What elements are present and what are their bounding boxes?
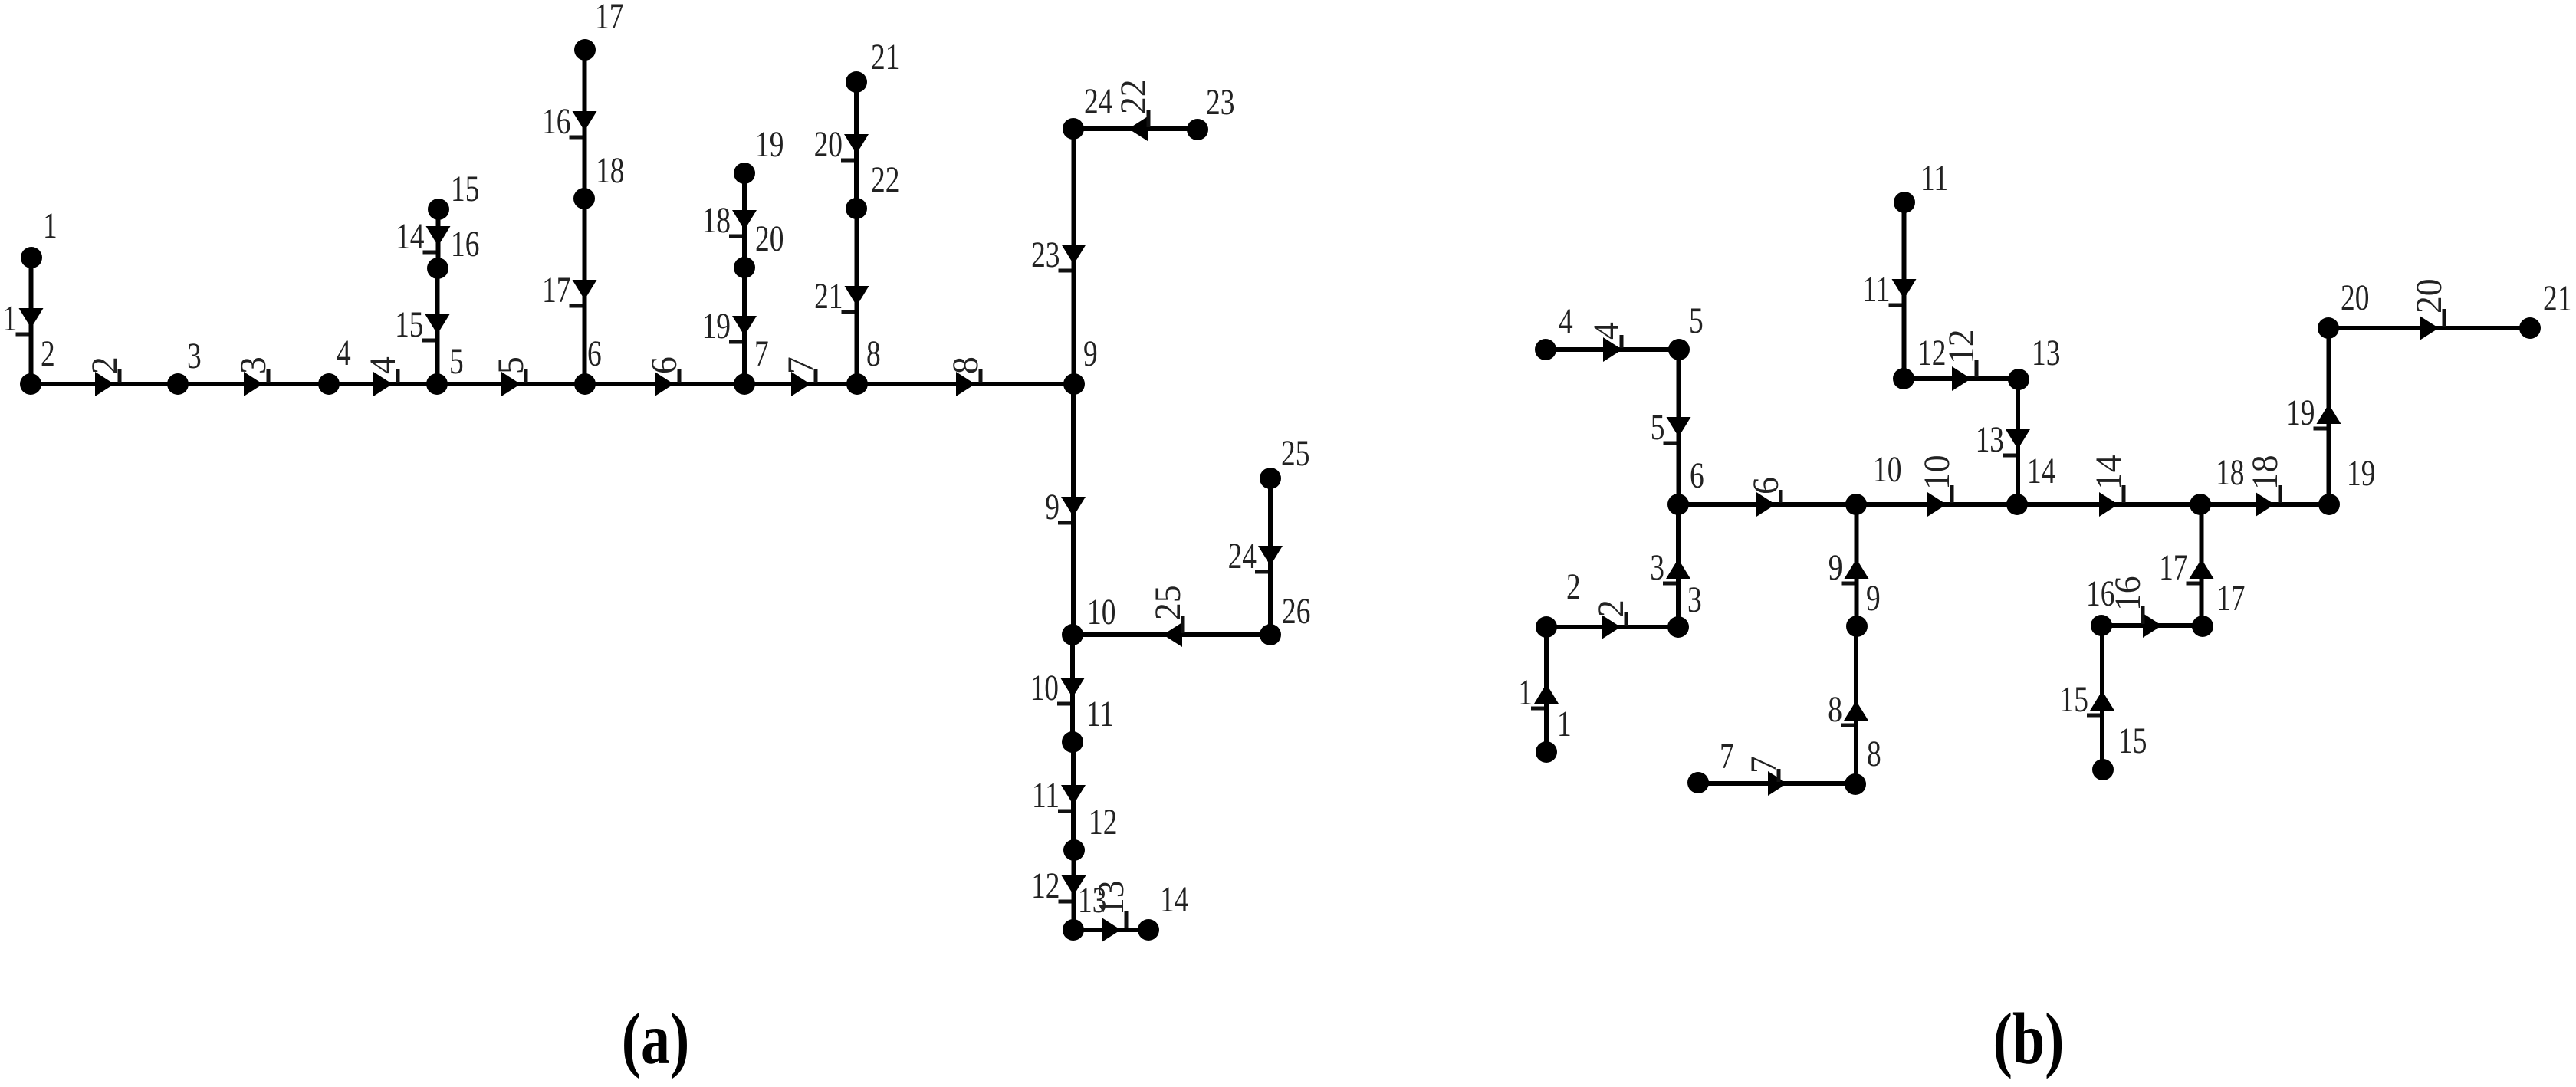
- wire branch 18 (b): node 18 to node 19: [2200, 455, 2329, 517]
- node 17 (b): [2192, 579, 2245, 637]
- node 20 (a): [734, 219, 784, 278]
- wire branch 25 (a): node 10 to node 26: [1073, 585, 1270, 647]
- svg-text:8: 8: [1828, 690, 1842, 730]
- svg-text:5: 5: [1651, 408, 1665, 448]
- node 13 (b): [2008, 333, 2060, 390]
- svg-text:18: 18: [596, 151, 624, 191]
- wire branch 6 (b): node 6 to node 10: [1678, 477, 1856, 517]
- wire branch 10 (b): node 10 to node 14: [1856, 455, 2017, 517]
- node 17 (a): [574, 0, 623, 61]
- svg-text:12: 12: [1917, 333, 1946, 373]
- node 3 (a): [167, 337, 202, 395]
- node 1 (a): [21, 206, 58, 268]
- svg-text:19: 19: [2347, 454, 2375, 494]
- svg-text:20: 20: [2409, 278, 2449, 314]
- svg-text:(b): (b): [1993, 998, 2065, 1079]
- svg-text:1: 1: [3, 299, 18, 339]
- node 12 (b): [1893, 333, 1946, 389]
- svg-text:5: 5: [449, 342, 464, 382]
- node 24 (a): [1063, 82, 1112, 140]
- node 9 (b): [1846, 579, 1881, 637]
- wire branch 17 (a): node 18 to node 6: [542, 199, 596, 384]
- svg-text:20: 20: [814, 125, 843, 165]
- svg-text:19: 19: [755, 125, 784, 165]
- node 14 (a): [1138, 880, 1188, 941]
- wire branch 12 (a): node 12 to node 13: [1031, 850, 1086, 930]
- wire branch 22 (a): node 24 to node 23: [1073, 79, 1198, 141]
- node 11 (b): [1894, 159, 1948, 213]
- svg-text:4: 4: [1559, 302, 1573, 342]
- svg-text:19: 19: [2286, 393, 2315, 433]
- svg-text:15: 15: [451, 169, 479, 209]
- svg-text:11: 11: [1086, 695, 1114, 734]
- svg-text:11: 11: [1032, 776, 1060, 816]
- svg-text:24: 24: [1228, 537, 1257, 576]
- wire branch 9 (b): node 10 to node 9: [1829, 504, 1869, 626]
- svg-text:6: 6: [1690, 456, 1704, 496]
- svg-text:9: 9: [1866, 579, 1881, 619]
- node 19 (b): [2318, 454, 2375, 515]
- node 6 (b): [1667, 456, 1704, 515]
- node 15 (a): [428, 169, 479, 220]
- wire branch 19 (b): node 20 to node 19: [2286, 328, 2341, 504]
- svg-text:8: 8: [866, 334, 881, 374]
- node 21 (a): [846, 38, 899, 93]
- svg-text:8: 8: [1867, 734, 1881, 774]
- svg-text:9: 9: [1083, 334, 1098, 374]
- svg-text:11: 11: [1921, 159, 1948, 199]
- svg-text:10: 10: [1873, 450, 1901, 490]
- wire branch 24 (a): node 25 to node 26: [1228, 478, 1283, 635]
- wire branch 7 (a): node 7 to node 8: [744, 356, 857, 396]
- node 11 (a): [1062, 695, 1114, 753]
- node 8 (a): [846, 334, 881, 395]
- node 5 (b): [1668, 301, 1704, 360]
- svg-text:21: 21: [814, 277, 843, 317]
- svg-text:16: 16: [542, 102, 570, 142]
- node 1 (b): [1536, 704, 1572, 763]
- node 7 (b): [1687, 737, 1734, 793]
- wire branch 5 (b): node 5 to node 6: [1651, 350, 1691, 504]
- node 16 (a): [427, 225, 479, 279]
- svg-text:21: 21: [871, 38, 899, 77]
- svg-text:11: 11: [1862, 270, 1890, 310]
- svg-text:18: 18: [702, 201, 731, 241]
- svg-text:12: 12: [1089, 803, 1117, 842]
- svg-text:17: 17: [2159, 548, 2187, 588]
- wire branch 15 (a): node 16 to node 5: [395, 268, 449, 384]
- wire branch 3 (b): node 6 to node 3: [1650, 504, 1691, 627]
- wire branch 14 (b): node 14 to node 18: [2017, 455, 2200, 517]
- node 21 (b): [2519, 279, 2571, 339]
- node 14 (b): [2006, 452, 2055, 515]
- svg-text:13: 13: [1078, 881, 1106, 921]
- node 2 (b): [1536, 567, 1581, 638]
- svg-text:4: 4: [337, 333, 351, 373]
- wire branch 6 (a): node 6 to node 7: [585, 356, 744, 396]
- node 4 (a): [318, 333, 351, 395]
- svg-text:13: 13: [1976, 420, 2004, 460]
- svg-text:16: 16: [2086, 574, 2114, 614]
- wire branch 8 (b): node 9 to node 8: [1828, 626, 1868, 784]
- svg-text:17: 17: [542, 271, 570, 310]
- svg-text:9: 9: [1829, 548, 1843, 588]
- node 2 (a): [20, 334, 55, 395]
- node 16 (b): [2086, 574, 2114, 636]
- node 18 (b): [2190, 453, 2244, 515]
- svg-text:1: 1: [1518, 673, 1533, 713]
- svg-text:25: 25: [1148, 585, 1188, 620]
- svg-text:10: 10: [1917, 455, 1957, 490]
- node 7 (a): [734, 334, 769, 395]
- svg-text:20: 20: [2341, 278, 2369, 318]
- wire branch 20 (a): node 21 to node 22: [814, 82, 869, 209]
- node 23 (a): [1187, 83, 1234, 140]
- wire branch 10 (a): node 10 to node 11: [1030, 635, 1085, 742]
- wire branch 13 (b): node 13 to node 14: [1976, 379, 2030, 504]
- svg-text:14: 14: [1160, 880, 1188, 920]
- svg-text:3: 3: [1687, 580, 1702, 620]
- svg-text:14: 14: [2088, 455, 2129, 490]
- svg-text:18: 18: [2216, 453, 2244, 493]
- wire branch 11 (a): node 11 to node 12: [1032, 742, 1086, 850]
- svg-text:3: 3: [1650, 548, 1664, 588]
- node 22 (a): [846, 160, 899, 219]
- wire branch 19 (a): node 20 to node 7: [702, 268, 757, 384]
- svg-text:10: 10: [1030, 668, 1059, 708]
- node 26 (a): [1260, 592, 1310, 645]
- wire branch 1 (a): node 1 to node 2: [3, 258, 44, 384]
- svg-text:23: 23: [1031, 235, 1060, 275]
- node 10 (b): [1845, 450, 1901, 515]
- svg-text:14: 14: [2027, 452, 2055, 491]
- node 8 (b): [1845, 734, 1881, 795]
- node 20 (b): [2318, 278, 2369, 339]
- wire branch 21 (a): node 22 to node 8: [814, 209, 869, 384]
- node 12 (a): [1063, 803, 1117, 861]
- wire branch 1 (b): node 2 to node 1: [1518, 627, 1559, 752]
- wire branch 7 (b): node 7 to node 8: [1698, 756, 1855, 796]
- wire branch 16 (a): node 17 to node 18: [542, 50, 596, 199]
- node 19 (a): [734, 125, 784, 184]
- wire branch 15 (b): node 16 to node 15: [2060, 626, 2114, 770]
- svg-text:15: 15: [2060, 680, 2088, 720]
- wire branch 9 (a): node 9 to node 10: [1045, 384, 1086, 635]
- wire branch 18 (a): node 19 to node 20: [702, 173, 757, 268]
- svg-text:7: 7: [754, 334, 769, 374]
- wire branch 2 (a): node 2 to node 3: [31, 356, 178, 396]
- wire branch 3 (a): node 3 to node 4: [178, 356, 329, 396]
- wire branch 8 (a): node 8 to node 9: [857, 356, 1074, 396]
- svg-text:18: 18: [2245, 455, 2285, 490]
- svg-text:13: 13: [2032, 333, 2060, 373]
- wire branch 2 (b): node 2 to node 3: [1546, 599, 1678, 639]
- svg-text:9: 9: [1045, 488, 1060, 527]
- node 10 (a): [1062, 593, 1115, 645]
- wire branch 14 (a): node 15 to node 16: [396, 209, 450, 268]
- svg-text:24: 24: [1084, 82, 1112, 122]
- svg-text:1: 1: [1557, 704, 1572, 744]
- svg-text:20: 20: [755, 219, 784, 259]
- svg-text:26: 26: [1282, 592, 1310, 632]
- wire branch 16 (b): node 16 to node 17: [2101, 576, 2203, 638]
- svg-text:22: 22: [1113, 79, 1154, 114]
- svg-text:25: 25: [1281, 434, 1309, 474]
- svg-text:17: 17: [595, 0, 623, 37]
- svg-text:2: 2: [1566, 567, 1581, 607]
- svg-text:22: 22: [871, 160, 899, 200]
- wire branch 11 (b): node 11 to node 12: [1862, 202, 1916, 379]
- wire branch 5 (a): node 5 to node 6: [437, 356, 585, 396]
- svg-text:21: 21: [2543, 279, 2571, 319]
- svg-text:19: 19: [702, 307, 731, 346]
- node 6 (a): [574, 334, 602, 395]
- svg-text:12: 12: [1031, 866, 1060, 906]
- node 25 (a): [1260, 434, 1309, 489]
- svg-text:6: 6: [587, 334, 602, 374]
- node 4 (b): [1535, 302, 1573, 360]
- wire branch 20 (b): node 20 to node 21: [2328, 278, 2530, 340]
- node 18 (a): [573, 151, 624, 209]
- wire branch 4 (a): node 4 to node 5: [329, 356, 437, 396]
- wire branch 12 (b): node 12 to node 13: [1904, 329, 2019, 391]
- wire branch 4 (b): node 4 to node 5: [1546, 322, 1679, 362]
- svg-text:15: 15: [395, 305, 423, 345]
- svg-text:1: 1: [43, 206, 58, 246]
- svg-text:3: 3: [187, 337, 202, 376]
- svg-text:10: 10: [1087, 593, 1115, 632]
- node 9 (a): [1063, 334, 1098, 395]
- svg-text:7: 7: [1720, 737, 1734, 777]
- svg-text:23: 23: [1206, 83, 1234, 123]
- svg-text:16: 16: [451, 225, 479, 264]
- wire branch 23 (a): node 24 to node 9: [1031, 129, 1086, 384]
- svg-text:(a): (a): [622, 998, 690, 1079]
- node 13 (a): [1063, 881, 1106, 941]
- svg-text:12: 12: [1941, 329, 1982, 364]
- wire branch 13 (a): node 13 to node 14: [1073, 880, 1148, 942]
- node 15 (b): [2092, 721, 2147, 780]
- node 5 (a): [426, 342, 464, 395]
- wire branch 17 (b): node 18 to node 17: [2159, 504, 2213, 626]
- svg-text:5: 5: [1689, 301, 1704, 341]
- node 3 (b): [1667, 580, 1702, 638]
- svg-text:2: 2: [41, 334, 55, 374]
- svg-text:14: 14: [396, 217, 424, 257]
- svg-text:15: 15: [2118, 721, 2147, 761]
- svg-text:17: 17: [2216, 579, 2245, 619]
